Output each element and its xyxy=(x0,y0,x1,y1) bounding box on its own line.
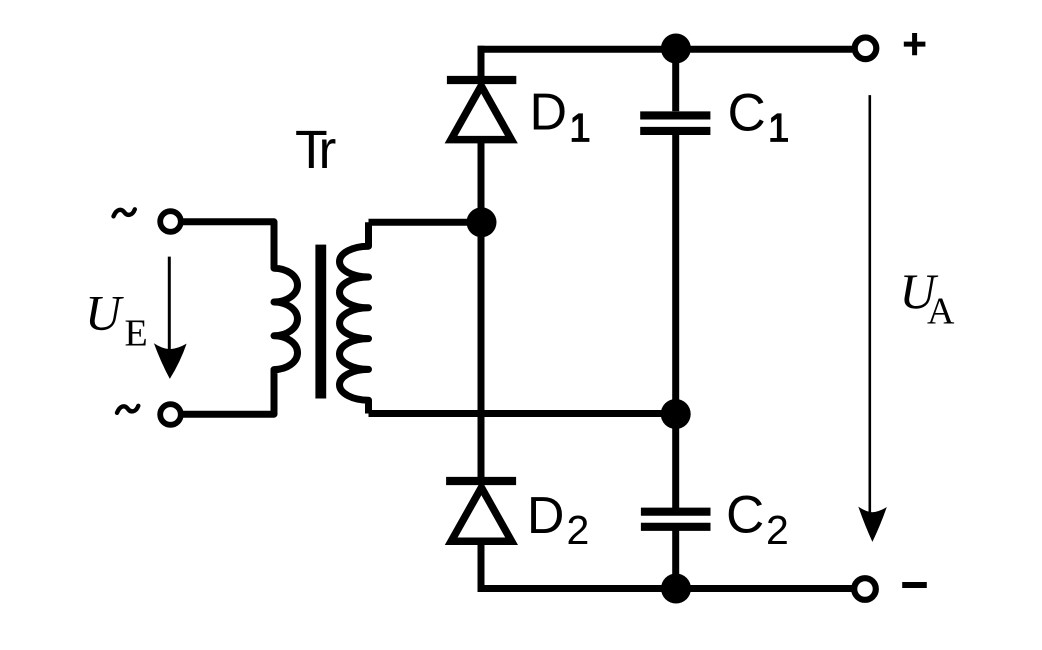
label C1 xyxy=(728,84,789,143)
diode D2 cathode bar xyxy=(446,477,516,485)
wire node A to D2 xyxy=(478,222,485,477)
svg-text:2: 2 xyxy=(567,507,590,553)
label minus xyxy=(902,582,927,588)
arrow U_E xyxy=(154,257,187,379)
junction dot bottom xyxy=(661,574,691,604)
wire secondary bottom to node B xyxy=(369,410,676,417)
label plus xyxy=(904,33,926,55)
wire C1 to node B xyxy=(672,135,679,414)
terminal input top xyxy=(160,211,181,232)
transformer Tr primary winding xyxy=(181,222,298,414)
diode D2 xyxy=(445,480,518,545)
svg-text:C: C xyxy=(728,84,766,143)
label U_A xyxy=(900,263,956,333)
transformer Tr secondary winding xyxy=(340,222,369,413)
label D1 xyxy=(530,84,590,142)
AC tilde bottom xyxy=(117,406,138,413)
label U_E xyxy=(85,285,148,355)
wire D1 top lead xyxy=(478,46,485,78)
label C2 xyxy=(726,486,789,554)
svg-text:D: D xyxy=(527,487,565,545)
wire top rail to C1 xyxy=(672,49,679,111)
wire bottom rail xyxy=(478,585,853,592)
node B junction dot xyxy=(661,399,691,429)
capacitor C1 xyxy=(640,115,710,130)
terminal input bottom xyxy=(160,404,181,425)
diode D1 xyxy=(445,78,518,143)
wire secondary top to node A xyxy=(369,219,482,226)
wire top rail xyxy=(478,46,853,53)
svg-text:U: U xyxy=(85,285,124,341)
svg-text:E: E xyxy=(125,313,148,355)
arrow U_A xyxy=(858,95,887,542)
terminal output plus xyxy=(855,38,877,60)
label D2 xyxy=(527,487,589,553)
terminal output minus xyxy=(854,578,876,600)
transformer Tr core xyxy=(315,245,326,399)
svg-text:C: C xyxy=(726,486,764,545)
wire node B to C2 xyxy=(672,414,679,508)
diode D1 cathode bar xyxy=(447,76,516,84)
wire D1 anode lead xyxy=(478,141,485,222)
svg-text:A: A xyxy=(927,291,955,333)
wire C2 to bottom rail xyxy=(672,531,679,589)
node A junction dot xyxy=(467,207,497,237)
AC tilde top xyxy=(114,209,135,216)
capacitor C2 xyxy=(641,512,711,527)
junction dot top xyxy=(661,34,691,64)
svg-text:Tr: Tr xyxy=(295,121,335,180)
svg-text:2: 2 xyxy=(766,507,789,553)
svg-text:D: D xyxy=(530,84,568,142)
wire D2 anode lead xyxy=(478,542,485,589)
